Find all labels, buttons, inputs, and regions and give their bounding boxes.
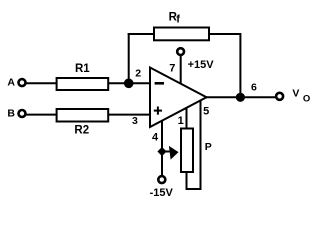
svg-text:R1: R1 xyxy=(75,63,90,75)
svg-text:2: 2 xyxy=(135,68,141,80)
svg-text:3: 3 xyxy=(132,115,138,127)
svg-text:O: O xyxy=(303,93,310,104)
svg-text:7: 7 xyxy=(169,63,175,75)
svg-text:+15V: +15V xyxy=(188,59,215,71)
svg-text:1: 1 xyxy=(178,115,184,127)
svg-text:-15V: -15V xyxy=(150,187,174,199)
svg-text:4: 4 xyxy=(152,131,159,143)
svg-text:B: B xyxy=(7,108,15,120)
svg-text:f: f xyxy=(176,14,180,26)
svg-text:V: V xyxy=(292,88,299,100)
svg-text:A: A xyxy=(7,77,15,89)
svg-text:5: 5 xyxy=(203,106,209,118)
svg-text:R2: R2 xyxy=(74,125,89,137)
svg-text:6: 6 xyxy=(251,82,257,94)
svg-text:P: P xyxy=(205,141,212,153)
